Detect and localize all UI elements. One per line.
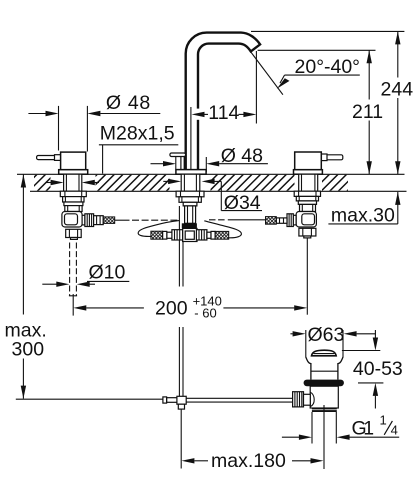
top extension line (244): [251, 30, 404, 32]
svg-text:114: 114: [208, 102, 239, 124]
tee left knurled nut: [172, 230, 183, 240]
right valve centreline: [306, 238, 308, 314]
pop-up rod clamp: [177, 396, 186, 404]
right valve shank: [299, 174, 318, 191]
centre body tube: [185, 206, 196, 223]
pull rod knob bar: [170, 153, 186, 157]
drain neck flare: [306, 357, 311, 380]
svg-text:M28x1,5: M28x1,5: [100, 123, 175, 145]
centre shank through deck: [181, 174, 200, 191]
spout tip extension line: [255, 51, 257, 124]
dimension G1 1/4: [282, 436, 299, 438]
left valve lever: [37, 156, 61, 160]
dimension 200: [73, 305, 86, 310]
left hose connector: [82, 215, 85, 225]
spout tube: [186, 33, 260, 174]
svg-text:Ø 48: Ø 48: [221, 145, 263, 167]
dimension Ø63: [290, 333, 292, 335]
dimension 114: [205, 113, 209, 115]
svg-text:Ø 48: Ø 48: [106, 92, 151, 114]
tee left hose curve: [138, 221, 179, 237]
dimension line 244: [397, 31, 399, 77]
Ø10 arrows: [42, 283, 56, 285]
right hose nut2: [276, 218, 287, 223]
floor reference line: [16, 398, 163, 400]
svg-text:Ø34: Ø34: [224, 192, 261, 214]
drain tailpipe: [311, 412, 313, 444]
spout centreline: [190, 107, 192, 174]
right valve flange: [294, 170, 323, 175]
dimension 40-53: [374, 330, 376, 338]
tee left fitting: [167, 232, 172, 238]
horizontal pop-up rod: [186, 397, 293, 399]
left hose nut2: [94, 216, 104, 225]
svg-text:Ø63: Ø63: [308, 324, 345, 346]
right valve hex band: [298, 201, 316, 205]
dimension max.300: [21, 175, 26, 188]
drain O-ring seal: [304, 380, 344, 387]
left valve mounting nut: [60, 191, 86, 196]
svg-text:40-53: 40-53: [353, 358, 403, 380]
drain knob connector and ball joint: [304, 394, 311, 405]
Ø10 underline: [87, 280, 129, 282]
M28x1,5 leader: [99, 144, 178, 146]
dimension max.30: [395, 192, 400, 205]
deck hatch: [20, 174, 372, 191]
dimension line 211: [368, 50, 370, 99]
Ø34 leader: [220, 181, 222, 210]
drain union bands: [312, 408, 337, 410]
right hose knurled nut: [287, 214, 293, 227]
deck top line: [17, 173, 405, 175]
drain rod knob: [293, 392, 304, 407]
svg-text:max.30: max.30: [331, 204, 395, 226]
svg-text:- 60: - 60: [194, 305, 216, 320]
tee right knurled nut: [196, 230, 207, 240]
svg-text:211: 211: [352, 101, 383, 123]
drain plug lens: [312, 350, 337, 356]
left valve bottom tabs: [71, 238, 78, 240]
tee right adapter: [211, 231, 215, 239]
pull rod dashed (Ø10): [69, 243, 71, 296]
centre hex band: [183, 202, 197, 206]
left valve centreline: [72, 294, 74, 316]
tee left braided hose: [151, 231, 163, 239]
dimension Ø48 left: line and arrows: [28, 113, 45, 115]
right valve thread section: [296, 196, 318, 201]
right hose line dashed: [209, 219, 227, 221]
right valve mounting nut: [294, 191, 320, 196]
svg-text:max.180: max.180: [211, 450, 286, 472]
max.180 left extension: [180, 409, 182, 468]
right hose braided segment: [266, 217, 277, 225]
tee right hose curve: [204, 221, 241, 238]
right valve elbow block: [296, 212, 316, 228]
left hose braided segment: [103, 217, 115, 224]
svg-text:200: 200: [155, 297, 188, 319]
left valve thread section: [63, 197, 84, 202]
drain body lower: [310, 386, 338, 408]
tee right fitting: [207, 232, 211, 238]
right valve lever: [321, 155, 343, 160]
tee right braided hose: [215, 231, 229, 239]
pull rod knob arm: [180, 156, 182, 169]
left valve elbow block: [62, 212, 82, 228]
centre black band: [182, 223, 197, 228]
left valve body lower: [65, 206, 82, 212]
right hose connector: [293, 215, 296, 225]
spout base flange: [176, 170, 206, 175]
pull rod below deck (vertical): [178, 206, 180, 396]
svg-text:4: 4: [391, 423, 398, 438]
right valve bottom tabs: [304, 236, 311, 238]
20-40 leader and underline: [285, 74, 360, 76]
left valve flange: [59, 170, 88, 175]
left valve bottom nut: [66, 229, 82, 237]
drain centreline: [323, 405, 325, 469]
left valve hex band: [64, 202, 83, 206]
211 extension line: [258, 49, 376, 51]
left hose line solid: [115, 219, 130, 221]
svg-text:300: 300: [12, 339, 45, 361]
right valve body: [295, 152, 322, 170]
left valve body: [61, 152, 86, 170]
dimension max.180: [181, 458, 194, 463]
dimension Ø34 arrows: [163, 180, 168, 182]
water stream line: [251, 52, 283, 95]
svg-text:Ø10: Ø10: [89, 262, 126, 284]
left valve shank: [64, 174, 82, 191]
centre thread section: [179, 197, 201, 203]
centre mounting nut: [176, 191, 204, 197]
rod gap behind 200 label: [176, 287, 186, 328]
right hose line solid: [228, 219, 266, 221]
deck bottom line: [30, 190, 407, 192]
left hose line dashed: [132, 219, 178, 221]
dimension Ø48 centre: [151, 163, 164, 165]
tee left adapter: [163, 231, 167, 239]
centre tee block: [183, 228, 197, 241]
svg-text:1: 1: [380, 413, 387, 428]
left hose knurled nut: [85, 214, 94, 227]
left hole arrows: [46, 182, 51, 184]
drain top cylinder walls: [305, 330, 307, 357]
right valve body lower: [300, 204, 316, 211]
right valve bottom nut: [299, 228, 316, 236]
svg-text:1: 1: [363, 417, 374, 439]
svg-text:244: 244: [381, 78, 414, 100]
